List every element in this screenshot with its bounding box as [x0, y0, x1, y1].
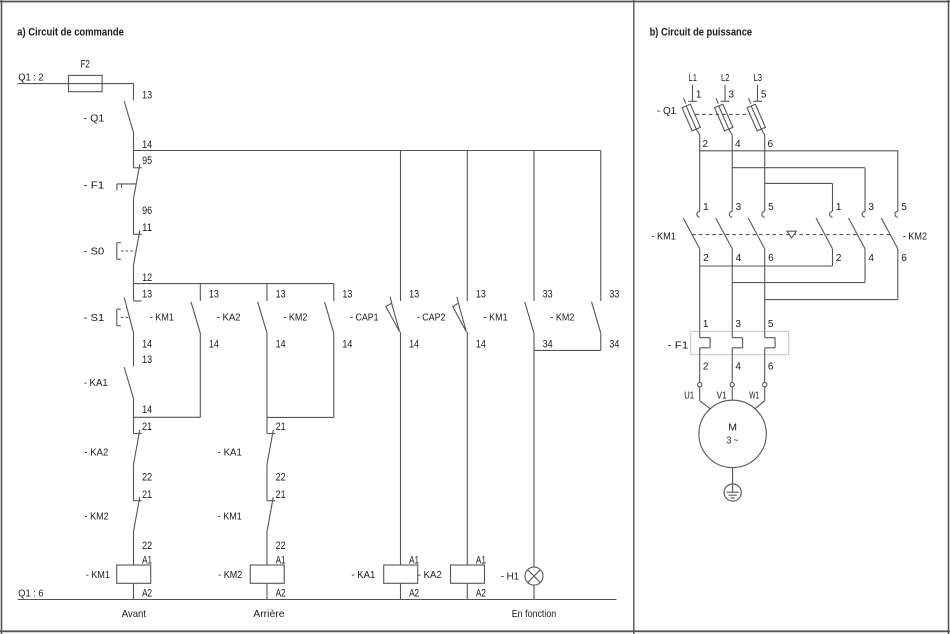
contact -KA1 blade (col1) — [124, 367, 133, 398]
contact -CAP1 label — [350, 311, 379, 323]
contact -S1 blade — [124, 298, 141, 334]
contactor KM1 pole 3 — [748, 211, 765, 248]
pin 2 Q1 — [703, 139, 709, 150]
svg-text:- KM2: - KM2 — [218, 569, 242, 581]
pin 13 — [476, 288, 486, 300]
svg-text:95: 95 — [142, 155, 152, 167]
svg-text:14: 14 — [142, 404, 152, 416]
wire col3 join-KA1nc — [266, 417, 268, 433]
pin 33 — [543, 288, 553, 300]
contact -KM1 NC (col3) — [267, 497, 275, 532]
coil -KA2 — [418, 555, 486, 600]
pin 96 F1 — [142, 205, 152, 217]
svg-text:4: 4 — [736, 253, 742, 264]
svg-text:5: 5 — [768, 202, 774, 213]
contact -Q1 blade — [124, 101, 133, 132]
svg-text:- KM1: - KM1 — [218, 511, 242, 523]
wire lamp to rail — [533, 585, 535, 599]
pin 4 — [868, 253, 874, 264]
contact -S0 NC — [134, 231, 142, 266]
wire col5 down — [400, 332, 402, 565]
svg-text:6: 6 — [768, 253, 774, 264]
terminal W1 — [763, 383, 767, 387]
svg-text:22: 22 — [142, 472, 152, 484]
wire col2 down — [199, 333, 201, 417]
relay -F1 label — [668, 340, 689, 352]
svg-text:6: 6 — [768, 139, 774, 150]
svg-text:1: 1 — [703, 202, 709, 213]
wire col7 rail14-KM1 — [533, 151, 535, 302]
svg-text:13: 13 — [142, 354, 152, 366]
svg-text:- F1: - F1 — [84, 180, 105, 192]
svg-text:11: 11 — [142, 222, 152, 234]
svg-text:33: 33 — [609, 288, 619, 300]
pin 14 — [276, 339, 286, 351]
svg-text:5: 5 — [761, 90, 767, 101]
svg-text:A2: A2 — [276, 587, 286, 599]
svg-text:4: 4 — [735, 139, 741, 150]
wire col8 down — [600, 333, 602, 350]
motor M circle — [699, 400, 766, 467]
pin 13 — [409, 288, 419, 300]
pin 21 KA1 — [276, 421, 286, 433]
pin 11 S0 — [142, 222, 152, 234]
svg-text:1: 1 — [836, 202, 842, 213]
svg-text:22: 22 — [276, 472, 286, 484]
link Q1 dashed — [696, 113, 751, 115]
node U1 label — [684, 391, 694, 402]
svg-text:22: 22 — [142, 540, 152, 552]
wire KM2:2 merge — [700, 249, 833, 266]
contact -KA2 label (col3) — [217, 311, 241, 323]
wire col8 rail14-KM2 — [600, 151, 602, 302]
pin 14 — [342, 339, 352, 351]
wire V1 to motor — [731, 387, 733, 400]
wire col1 KA2-KM2 — [133, 464, 135, 500]
pin 3 F1 — [735, 319, 741, 330]
pin 13 — [342, 288, 352, 300]
terminal V1 — [730, 383, 734, 387]
svg-text:- F1: - F1 — [668, 340, 689, 352]
panel divider — [633, 0, 635, 634]
wire F1 to U1 — [699, 355, 701, 383]
svg-text:A2: A2 — [142, 587, 152, 599]
pin 13 KA1 — [142, 354, 152, 366]
svg-text:Q1 : 2: Q1 : 2 — [18, 72, 43, 84]
contact -CAP2 blade — [453, 297, 467, 332]
svg-text:- KA2: - KA2 — [217, 311, 241, 323]
contact -KA2 NC (col1) — [134, 430, 142, 465]
svg-text:- KM1: - KM1 — [150, 311, 174, 323]
svg-text:A2: A2 — [409, 587, 419, 599]
svg-text:- KA2: - KA2 — [418, 569, 442, 581]
contact -Q1 label — [84, 112, 105, 124]
wire col2 rail12-KM1 — [199, 284, 201, 301]
pin 3 — [868, 202, 874, 213]
wire W1 to motor — [754, 387, 764, 409]
svg-text:- S1: - S1 — [84, 312, 105, 324]
wire KA1 to join — [133, 399, 135, 418]
lamp -H1 label — [501, 571, 520, 583]
contact -S0 label — [84, 245, 105, 257]
pin 2 — [703, 253, 709, 264]
pin 1 — [703, 202, 709, 213]
pin 14 — [476, 339, 486, 351]
svg-text:13: 13 — [142, 89, 152, 101]
svg-text:U1: U1 — [684, 391, 694, 402]
coil -KA1 — [351, 555, 419, 600]
wire S1-KA1 col1 — [133, 334, 135, 367]
contact -S1 label — [84, 312, 105, 324]
link KM dashed — [692, 234, 891, 236]
svg-text:En fonction: En fonction — [512, 608, 557, 620]
wire KM1 out 3 — [764, 249, 766, 332]
relay F1 heater 3 — [765, 331, 775, 354]
wire phase2 to KM2:3 — [732, 168, 865, 212]
pin 4 — [736, 253, 742, 264]
svg-text:13: 13 — [476, 288, 486, 300]
pin 6 F1 — [768, 361, 774, 372]
svg-text:- KA1: - KA1 — [84, 377, 108, 389]
wire col7 down — [533, 333, 535, 350]
svg-text:22: 22 — [276, 540, 286, 552]
wire U1 to motor — [700, 387, 711, 409]
svg-text:- KM2: - KM2 — [903, 230, 928, 242]
svg-text:21: 21 — [142, 421, 152, 433]
contact -KM2 NC (col1) — [134, 497, 142, 532]
wire col3 KM1-coil — [266, 532, 268, 566]
svg-text:13: 13 — [209, 288, 219, 300]
svg-text:Q1 : 6: Q1 : 6 — [18, 588, 43, 600]
wire motor to earth — [732, 468, 734, 493]
contact -F1 NC — [134, 164, 142, 199]
pin 14 KA1 — [142, 404, 152, 416]
contactor KM1 pole 2 — [716, 211, 733, 248]
svg-text:14: 14 — [476, 339, 486, 351]
pin 22 KM1 — [276, 540, 286, 552]
svg-text:21: 21 — [142, 489, 152, 501]
pin 21 KA2 — [142, 421, 152, 433]
wire rail 14 — [134, 150, 601, 152]
pin 22 KM2 — [142, 540, 152, 552]
relay F1 box — [691, 331, 789, 354]
contact -CAP2 label — [417, 311, 446, 323]
svg-text:5: 5 — [901, 202, 907, 213]
svg-text:14: 14 — [142, 339, 152, 351]
svg-text:12: 12 — [142, 272, 152, 284]
breaker -Q1 label — [657, 105, 676, 117]
node L2 — [721, 73, 730, 84]
border frame bottom — [0, 630, 950, 632]
svg-text:34: 34 — [609, 339, 619, 351]
pin 1 — [836, 202, 842, 213]
wire KM1 out 1 — [699, 249, 701, 332]
wire col7 to lamp — [533, 350, 535, 567]
svg-text:- KM1: - KM1 — [86, 569, 110, 581]
breaker Q1 pole 2 — [715, 98, 733, 151]
contactor KM2 pole 3 — [881, 211, 898, 248]
relay F1 actuator — [117, 184, 136, 191]
pin 95 F1 — [142, 155, 152, 167]
border frame top — [0, 1, 950, 3]
svg-text:- KM1: - KM1 — [651, 230, 676, 242]
svg-text:- KA2: - KA2 — [84, 447, 108, 459]
lamp -H1 — [525, 567, 543, 585]
contact -KA1 label (col1) — [84, 377, 108, 389]
wire col6 rail14-CAP2 — [466, 151, 468, 302]
pin 14 — [209, 339, 219, 351]
svg-text:- H1: - H1 — [501, 571, 520, 583]
pin 5 — [901, 202, 907, 213]
terminal U1 — [698, 383, 702, 387]
svg-text:L3: L3 — [754, 73, 763, 84]
pin 5 F1 — [768, 319, 774, 330]
svg-text:- CAP1: - CAP1 — [350, 311, 379, 323]
link KM triangle — [787, 231, 797, 238]
wire KM2:4 merge — [732, 249, 865, 283]
pin 34 — [609, 339, 619, 351]
pin 3 Q1 — [728, 90, 734, 101]
coil -KM2 — [218, 555, 285, 600]
wire KM1 feed 3 — [764, 151, 766, 212]
svg-text:13: 13 — [342, 288, 352, 300]
contact -KA2 NC label (col1) — [84, 447, 108, 459]
wire col4 down — [333, 333, 335, 417]
svg-text:V1: V1 — [717, 391, 727, 402]
svg-text:14: 14 — [276, 339, 286, 351]
svg-text:96: 96 — [142, 205, 152, 217]
pin 1 Q1 — [696, 90, 702, 101]
caption En fonction — [512, 608, 557, 620]
svg-text:14: 14 — [342, 339, 352, 351]
contact -KM2 label (col4) — [283, 311, 307, 323]
pin 5 Q1 — [761, 90, 767, 101]
node Q1 : 2 label — [18, 72, 43, 84]
contactor KM2 pole 2 — [849, 211, 866, 248]
contact -KM2 label (col8) — [550, 311, 574, 323]
svg-text:2: 2 — [703, 361, 709, 372]
contact -KA1 NC (col3) — [267, 430, 275, 465]
wire col3 rail12-KA2 — [266, 284, 268, 301]
node W1 label — [749, 391, 759, 402]
svg-text:- KM2: - KM2 — [85, 511, 109, 523]
svg-text:- KM1: - KM1 — [484, 311, 508, 323]
svg-text:a) Circuit de commande: a) Circuit de commande — [17, 27, 124, 39]
node L3 — [754, 73, 763, 84]
wire col1 KM2-coil — [133, 532, 135, 566]
contact -KM1 blade (col7) — [525, 302, 534, 333]
breaker Q1 pole 3 — [747, 98, 765, 151]
caption Arrière — [253, 608, 284, 620]
contact -KM1 label (col2) — [150, 311, 174, 323]
wire col3 KA1-KM1 — [266, 464, 268, 500]
node Q1 : 6 label — [18, 588, 43, 600]
pin 14 — [409, 339, 419, 351]
svg-text:14: 14 — [409, 339, 419, 351]
svg-text:- CAP2: - CAP2 — [417, 311, 446, 323]
svg-text:14: 14 — [142, 139, 152, 151]
wire F1 to V1 — [731, 355, 733, 383]
wire join col1-col2 — [134, 416, 201, 418]
contactor -KM2 label — [903, 230, 928, 242]
contact -KA1 NC label (col3) — [218, 447, 242, 459]
pin 4 Q1 — [735, 139, 741, 150]
svg-text:21: 21 — [276, 489, 286, 501]
svg-text:5: 5 — [768, 319, 774, 330]
node L1 — [689, 73, 698, 84]
svg-text:1: 1 — [703, 319, 709, 330]
pin 6 — [901, 253, 907, 264]
contact -F1 label — [84, 180, 105, 192]
relay F1 heater 1 — [700, 331, 710, 354]
title a) Circuit de commande — [17, 27, 124, 39]
pin 2 F1 — [703, 361, 709, 372]
pushbutton S1 actuator — [117, 309, 121, 326]
pin 13 — [209, 288, 219, 300]
border frame left — [1, 0, 3, 634]
wire KM1 feed 1 — [699, 151, 701, 212]
wire col1 rail12-S1 — [133, 284, 135, 301]
svg-text:33: 33 — [543, 288, 553, 300]
link S1 dashed — [121, 317, 130, 319]
svg-text:A2: A2 — [476, 587, 486, 599]
contact -KM2 blade (col8) — [592, 302, 601, 333]
terminal L3 — [753, 85, 762, 102]
pin 13 Q1 — [142, 89, 152, 101]
breaker Q1 pole 1 — [682, 98, 700, 151]
svg-text:- S0: - S0 — [84, 245, 105, 257]
caption Avant — [122, 608, 146, 620]
svg-text:- Q1: - Q1 — [657, 105, 676, 117]
wire col1 join-KA2nc — [133, 417, 135, 433]
contactor KM1 pole 1 — [683, 211, 700, 248]
wire col5 rail14-CAP1 — [400, 151, 402, 302]
title b) Circuit de puissance — [650, 27, 753, 39]
pin 21 KM1 — [276, 489, 286, 501]
wire phase3 to KM2:1 — [765, 183, 833, 211]
svg-text:13: 13 — [409, 288, 419, 300]
svg-text:21: 21 — [276, 421, 286, 433]
svg-text:b) Circuit de puissance: b) Circuit de puissance — [650, 27, 753, 39]
svg-text:13: 13 — [276, 288, 286, 300]
pin 13 — [142, 288, 152, 300]
svg-text:13: 13 — [142, 288, 152, 300]
wire F1 to S0 — [133, 199, 135, 235]
svg-text:3: 3 — [728, 90, 734, 101]
pin 21 KM2 — [142, 489, 152, 501]
pin 5 — [768, 202, 774, 213]
terminal L2 — [721, 85, 730, 102]
node V1 label — [717, 391, 727, 402]
wire KM2:6 merge — [765, 249, 898, 300]
svg-text:- KA1: - KA1 — [218, 447, 242, 459]
pin 6 Q1 — [768, 139, 774, 150]
wire join col7-col8 — [534, 349, 601, 351]
pin 14 — [142, 339, 152, 351]
motor M label — [728, 421, 737, 433]
svg-text:2: 2 — [703, 139, 709, 150]
fuse F2 label — [80, 58, 90, 70]
contact -KA2 blade (col3) — [258, 302, 267, 333]
contact -KM1 label (col7) — [484, 311, 508, 323]
svg-text:L2: L2 — [721, 73, 730, 84]
link S0 dashed — [121, 250, 136, 252]
wire phase1 to KM2:5 — [700, 151, 898, 212]
pin 14 Q1 — [142, 139, 152, 151]
svg-text:6: 6 — [901, 253, 907, 264]
pin 33 — [609, 288, 619, 300]
wire bottom rail — [18, 599, 617, 601]
wire F1 to W1 — [764, 355, 766, 383]
wire col3 down — [266, 333, 268, 417]
terminal L1 — [688, 85, 697, 102]
contactor KM2 pole 1 — [816, 211, 833, 248]
svg-text:W1: W1 — [749, 391, 759, 402]
svg-text:Avant: Avant — [122, 608, 146, 620]
svg-text:3: 3 — [736, 202, 742, 213]
relay F1 heater 2 — [732, 331, 742, 354]
wire col6 down — [466, 332, 468, 565]
svg-text:- Q1: - Q1 — [84, 112, 105, 124]
border frame right — [948, 0, 950, 634]
pushbutton S0 actuator — [117, 243, 121, 260]
pin 2 — [836, 253, 842, 264]
contactor -KM1 label — [651, 230, 676, 242]
wire KM1 feed 2 — [731, 151, 733, 212]
coil -KM1 — [86, 555, 152, 600]
svg-text:Arrière: Arrière — [253, 608, 284, 620]
svg-text:L1: L1 — [689, 73, 698, 84]
svg-text:4: 4 — [868, 253, 874, 264]
contact -KM1 blade (col2) — [191, 302, 200, 333]
contact -KM2 blade (col4) — [325, 302, 334, 333]
svg-text:- KM2: - KM2 — [283, 311, 307, 323]
svg-text:34: 34 — [543, 339, 553, 351]
pin 3 — [736, 202, 742, 213]
contact -KM1 NC label (col3) — [218, 511, 242, 523]
wire top supply — [18, 83, 134, 85]
svg-text:2: 2 — [836, 253, 842, 264]
svg-text:6: 6 — [768, 361, 774, 372]
pin 6 — [768, 253, 774, 264]
svg-text:1: 1 — [696, 90, 702, 101]
pin 22 KA1 — [276, 472, 286, 484]
wire col1 top — [133, 84, 135, 101]
wire rail 12 — [134, 283, 334, 285]
svg-text:- KA1: - KA1 — [351, 569, 375, 581]
fuse F2 — [69, 75, 103, 91]
svg-text:3: 3 — [868, 202, 874, 213]
svg-text:M: M — [728, 421, 737, 433]
svg-text:F2: F2 — [80, 58, 90, 70]
svg-text:3 ~: 3 ~ — [727, 435, 739, 447]
svg-text:- KM2: - KM2 — [550, 311, 574, 323]
pin 1 F1 — [703, 319, 709, 330]
svg-text:14: 14 — [209, 339, 219, 351]
pin 22 KA2 — [142, 472, 152, 484]
wire S0 to rail12 — [133, 265, 135, 284]
wire join col3-col4 — [267, 416, 334, 418]
motor 3~ label — [727, 435, 739, 447]
wire col4 rail12-KM2 — [333, 284, 335, 301]
contact -CAP1 blade — [386, 297, 400, 332]
pin 13 — [276, 288, 286, 300]
pin 4 F1 — [735, 361, 741, 372]
svg-text:3: 3 — [735, 319, 741, 330]
svg-text:2: 2 — [703, 253, 709, 264]
pin 12 S0 — [142, 272, 152, 284]
ground symbol — [724, 484, 741, 501]
